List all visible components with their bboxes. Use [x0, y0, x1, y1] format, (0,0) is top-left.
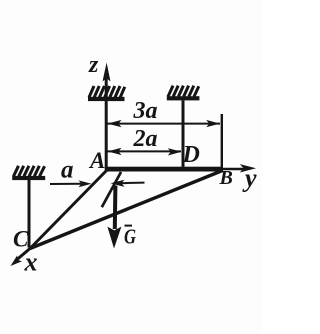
3a right arrowhead	[206, 120, 220, 127]
dimension a shaft (left part)	[50, 183, 81, 185]
x axis shaft from C	[17, 249, 30, 260]
dimension a right-pointing arrowhead	[79, 180, 92, 187]
bar A to B	[105, 167, 223, 172]
dimension a shaft (right part)	[120, 182, 145, 185]
ceiling support bar (top, on z axis)	[88, 97, 125, 101]
svg-text:a: a	[61, 157, 74, 184]
dimension line 2a	[107, 150, 181, 152]
2a left arrowhead	[108, 148, 122, 155]
z axis arrowhead	[103, 63, 111, 82]
3a left arrowhead	[108, 120, 122, 127]
svg-text:3a: 3a	[133, 98, 158, 124]
svg-text:D: D	[182, 142, 200, 168]
dimension line 3a	[107, 123, 220, 125]
svg-text:G: G	[124, 225, 136, 249]
overbar of G	[125, 225, 133, 227]
y axis line from B	[222, 168, 244, 171]
y axis arrowhead	[240, 164, 256, 172]
svg-text:2a: 2a	[133, 126, 158, 152]
force G shaft	[113, 186, 118, 230]
rod from left support down to C	[28, 180, 31, 248]
svg-text:A: A	[88, 148, 105, 173]
dimension a left-pointing arrowhead	[111, 180, 125, 187]
force G arrowhead	[107, 227, 121, 249]
plate edge C to A	[30, 170, 108, 249]
slanted tick through G line	[102, 172, 121, 207]
svg-text:z: z	[88, 52, 99, 78]
svg-text:y: y	[242, 164, 257, 193]
svg-text:x: x	[24, 248, 38, 277]
ceiling support hatch (left, above C)	[14, 166, 45, 177]
rod from right support down to D	[182, 100, 185, 169]
ceiling support bar (left, above C)	[12, 176, 45, 180]
z axis shaft	[105, 78, 108, 169]
extension line at B	[221, 114, 223, 171]
ceiling support bar (right, above D)	[167, 96, 200, 100]
ceiling support hatch (top, on z axis)	[89, 86, 125, 97]
plate edge C to B	[30, 171, 223, 249]
2a right arrowhead	[168, 148, 182, 155]
ceiling support hatch (right, above D)	[168, 86, 199, 97]
x axis arrowhead	[11, 255, 23, 266]
